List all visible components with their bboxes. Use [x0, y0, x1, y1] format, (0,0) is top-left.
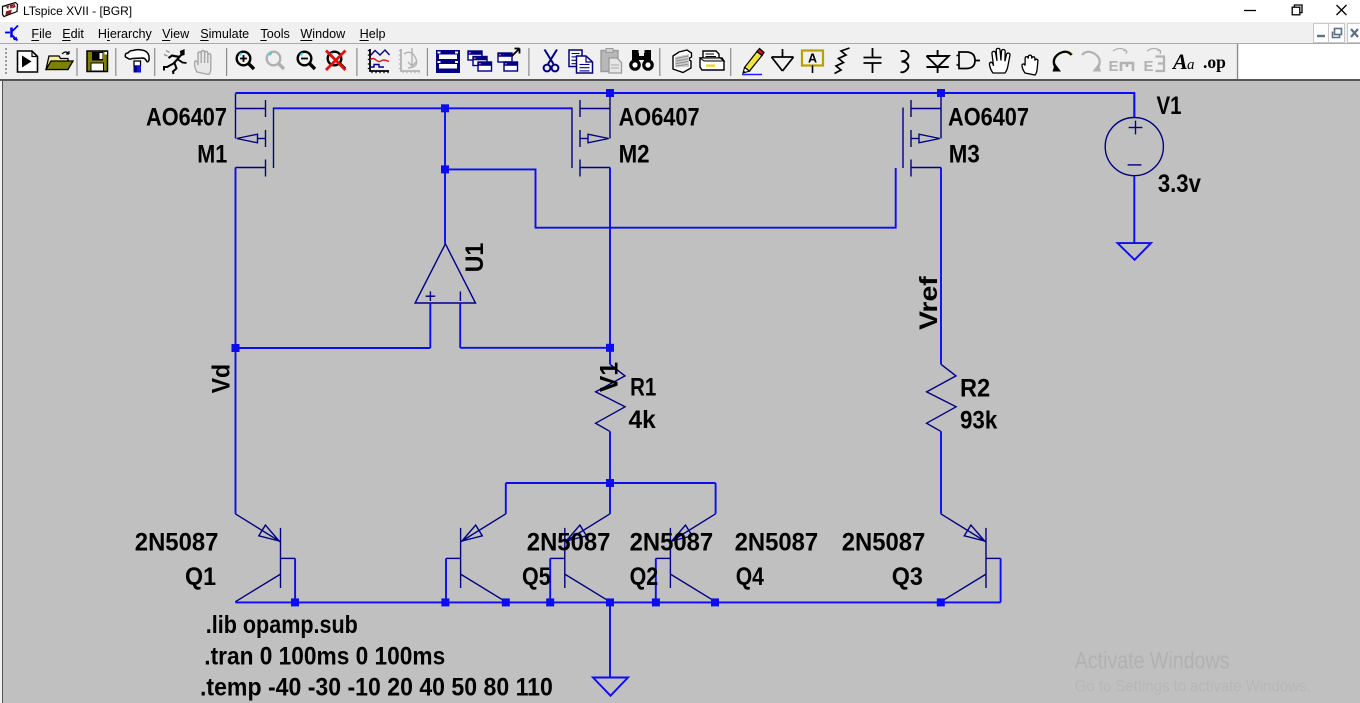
svg-text:M2: M2 [619, 140, 650, 168]
svg-text:a: a [1187, 57, 1195, 73]
svg-text:V1: V1 [596, 362, 624, 392]
wire top supply rail [236, 93, 1135, 118]
svg-text:Q5: Q5 [522, 563, 551, 591]
wire opamp - input pin [459, 303, 461, 348]
node R1 top junction [606, 344, 614, 352]
wire opamp + input pin [429, 303, 431, 348]
node Q3 collector on rail [937, 598, 945, 606]
wire R2 bottom to Q3 emitter [940, 431, 942, 514]
node emitter bus junction [606, 479, 614, 487]
node Q4 base on rail [652, 598, 660, 606]
node Vd junction [232, 344, 240, 352]
wire Q2 emitter [609, 483, 611, 514]
svg-text:2N5087: 2N5087 [842, 529, 926, 557]
wire emitter bus Q5-Q2-Q4 [506, 482, 716, 484]
wire opamp output pin [444, 169, 446, 243]
wire V1 bottom to ground [1133, 176, 1135, 243]
voltage source V1 [1105, 118, 1163, 176]
node Q4 collector on rail [711, 598, 719, 606]
svg-text:.lib opamp.sub: .lib opamp.sub [206, 611, 358, 639]
wire M1 drain down (node Vd) [235, 168, 237, 349]
wire V1 top to rail [1133, 93, 1135, 118]
wire base of Q5 to bottom rail [445, 558, 447, 602]
wire base of Q3 to bottom rail [1000, 558, 1002, 602]
svg-text:.op: .op [1203, 52, 1226, 72]
wire gate bus M1-M2 [274, 107, 572, 109]
wire M3 drain down to R2 (node Vref) [940, 168, 942, 365]
node Q1 base on rail [291, 598, 299, 606]
svg-text:2N5087: 2N5087 [527, 529, 611, 557]
svg-text:Activate Windows: Activate Windows [1075, 648, 1230, 675]
node Q5 collector on rail [502, 598, 510, 606]
pnp transistor Q2 [550, 514, 610, 602]
svg-text:R2: R2 [960, 375, 990, 403]
wire Q5 emitter [505, 483, 507, 514]
wire R1 top [609, 348, 611, 364]
svg-text:Q3: Q3 [892, 563, 923, 591]
node Q5 base on rail [441, 598, 449, 606]
node junction M3 source on rail [937, 89, 945, 97]
svg-text:V1: V1 [1157, 92, 1182, 120]
svg-text:E: E [1144, 58, 1154, 75]
wire M2 drain down to R1 [609, 168, 611, 349]
node ground junction on rail [606, 598, 614, 606]
wire opamp - input to R1 top node [460, 347, 610, 349]
wire Vd down to Q1 emitter [235, 348, 237, 514]
svg-text:2N5087: 2N5087 [630, 529, 714, 557]
wire Vd to opamp + input [236, 347, 431, 349]
svg-text:A: A [1171, 49, 1188, 74]
svg-text:Go to Settings to activate Win: Go to Settings to activate Windows. [1075, 676, 1311, 695]
resistor R1 [596, 364, 626, 431]
pmos transistor M2 [572, 94, 610, 177]
svg-text:Vd: Vd [208, 364, 236, 393]
svg-text:93k: 93k [960, 407, 997, 435]
svg-text:U1: U1 [461, 243, 489, 273]
op-amp U1 [415, 244, 475, 303]
ground symbol bottom [593, 678, 628, 696]
svg-text:E: E [1109, 58, 1119, 75]
wire base of Q4 to bottom rail [655, 558, 657, 602]
node junction M2 source on rail [606, 89, 614, 97]
pmos transistor M3 [903, 94, 941, 177]
svg-text:A: A [808, 52, 817, 66]
svg-text:AO6407: AO6407 [146, 104, 227, 132]
svg-text:M1: M1 [197, 140, 227, 168]
wire Q4 emitter [715, 483, 717, 514]
svg-text:3.3v: 3.3v [1158, 170, 1201, 198]
wire ground stem at bottom rail [609, 602, 611, 677]
pnp transistor Q5 [446, 514, 506, 602]
svg-text:AO6407: AO6407 [948, 104, 1029, 132]
svg-text:2N5087: 2N5087 [735, 529, 819, 557]
svg-text:AO6407: AO6407 [619, 104, 700, 132]
node Q2 base on rail [546, 598, 554, 606]
wire bottom rail [235, 601, 1000, 603]
svg-text:Q1: Q1 [185, 563, 216, 591]
svg-text:R1: R1 [630, 373, 656, 401]
svg-text:2N5087: 2N5087 [135, 529, 219, 557]
wire R1 bottom to emitter bus [609, 431, 611, 483]
ground symbol V1 [1118, 243, 1152, 260]
svg-text:Q4: Q4 [736, 563, 764, 591]
svg-text:4k: 4k [629, 406, 656, 434]
svg-text:.temp -40 -30 -10 20 40 50 80: .temp -40 -30 -10 20 40 50 80 110 [200, 674, 553, 702]
svg-text:Vref: Vref [915, 275, 943, 330]
node junction gate bus [441, 104, 449, 112]
resistor R2 [927, 364, 957, 431]
svg-text:.tran 0 100ms 0 100ms: .tran 0 100ms 0 100ms [204, 643, 445, 671]
pmos transistor M1 [236, 94, 274, 177]
pnp transistor Q3 [941, 514, 1001, 602]
node junction opamp output [441, 165, 449, 173]
pnp transistor Q4 [656, 514, 716, 602]
svg-text:M3: M3 [949, 140, 980, 168]
pnp transistor Q1 [235, 514, 295, 602]
svg-text:Q2: Q2 [630, 563, 659, 591]
wire base of Q2 to bottom rail [549, 558, 551, 602]
wire opamp output to gate bus [444, 108, 446, 169]
wire base of Q1 to bottom rail [294, 558, 296, 602]
wire opamp output to M3 gate [445, 168, 896, 228]
